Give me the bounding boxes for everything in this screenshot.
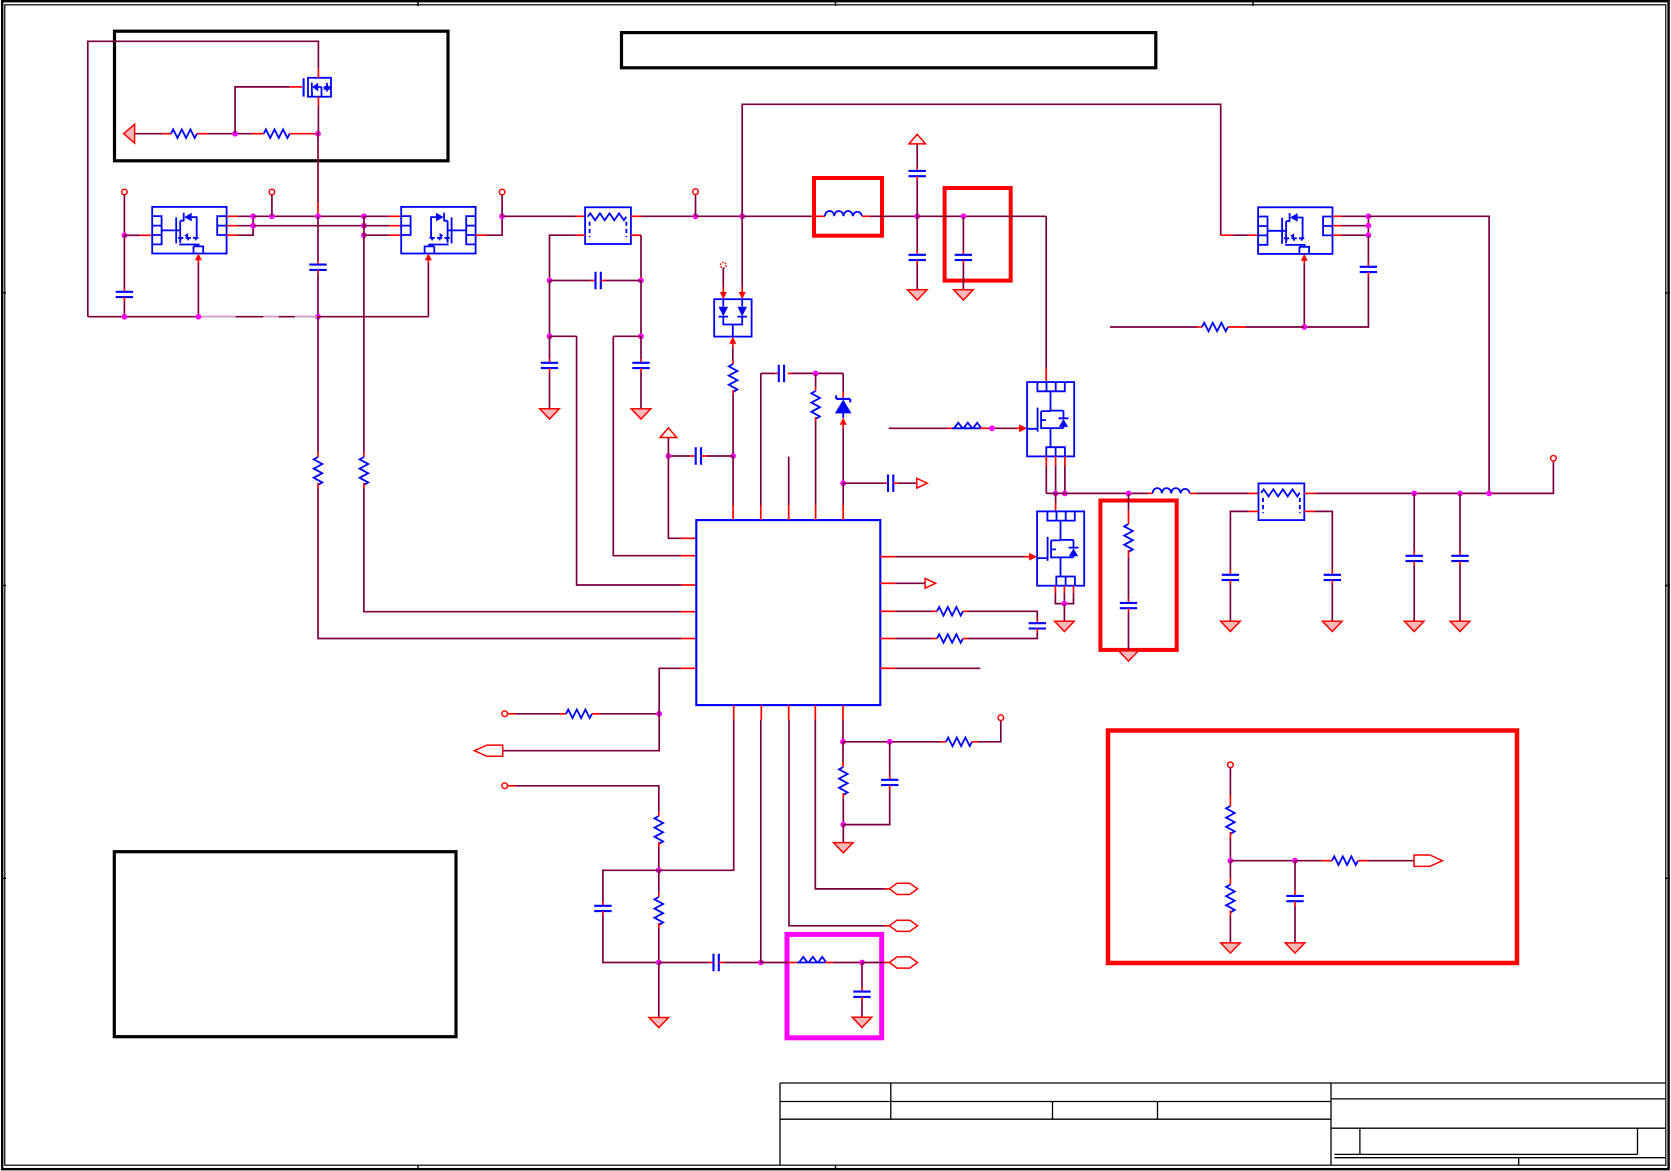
wire VM down to cap C22 bbox=[861, 963, 863, 992]
node CC2 bbox=[1366, 223, 1372, 229]
wire IC pin B1 down bbox=[659, 705, 734, 870]
wire QA source to bus bbox=[197, 263, 199, 317]
capacitor C23 bbox=[881, 780, 898, 785]
port P5 circle bbox=[1551, 456, 1557, 462]
wire P4b to D1 anode1 bbox=[720, 268, 727, 299]
wire column B to pack QB pins bbox=[364, 216, 401, 235]
resistor R3 bbox=[314, 457, 323, 485]
wire D1 to R5 bbox=[732, 347, 734, 364]
wire P8 to resistor chain bbox=[508, 786, 659, 816]
wire C8 to gnd bbox=[916, 260, 918, 290]
wire DIV to node DIV2 bbox=[1230, 860, 1295, 862]
wire PW2 to cap C7 bbox=[916, 144, 918, 171]
node DIV2 bbox=[1292, 858, 1298, 864]
pin QC source arrow bbox=[1301, 254, 1308, 264]
node FB2 bbox=[656, 867, 662, 873]
node QES bbox=[1062, 601, 1068, 607]
node P3J bbox=[499, 213, 505, 219]
node VC2 bbox=[961, 213, 967, 219]
black highlight box B1 (top-left) bbox=[115, 31, 449, 161]
wire C16 to gnd bbox=[1331, 580, 1333, 621]
wire R3 to IC pin LBST bbox=[318, 483, 696, 639]
wire QD gate net bbox=[889, 427, 952, 429]
node ILIM2 bbox=[887, 739, 893, 745]
wire ILIM down to R18 bbox=[842, 742, 844, 767]
capacitor C1 bbox=[116, 292, 133, 297]
wire L1 to rail bbox=[862, 215, 917, 217]
wire P1 to gate node bbox=[123, 195, 125, 236]
node C6R bbox=[730, 453, 736, 459]
wire QES to gnd bbox=[1063, 604, 1065, 622]
wire OUT2 to cap C18 bbox=[1459, 493, 1461, 555]
node T1L bbox=[547, 278, 553, 284]
wire T1 out to rail bbox=[631, 215, 696, 217]
capacitor C11 bbox=[779, 365, 784, 382]
node CMP2 bbox=[758, 960, 764, 966]
wire FB2 left jog to cap C20 bbox=[603, 870, 659, 906]
resistor R17 bbox=[946, 738, 972, 747]
capacitor C9 bbox=[955, 255, 972, 260]
capacitor C10 bbox=[1360, 267, 1377, 272]
wire R10 to cap C14 bbox=[1128, 550, 1130, 603]
wire x318 down with cap C2 bbox=[317, 216, 319, 264]
wire C20 to row bbox=[603, 911, 659, 962]
node IG bbox=[840, 822, 846, 828]
magenta highlight box MB1 bbox=[787, 934, 882, 1037]
ground G7 bbox=[1221, 621, 1241, 631]
capacitor C4 bbox=[541, 363, 558, 368]
node P1G bbox=[122, 232, 128, 238]
resistor R9 bbox=[937, 634, 963, 643]
capacitor C2 bbox=[309, 265, 326, 270]
wire R15 to node FB2 bbox=[658, 842, 660, 870]
wire VM to hex port H3 bbox=[862, 962, 889, 964]
MOSFET pack QB (mirrored) bbox=[401, 207, 475, 254]
inductor L2 bbox=[1153, 488, 1190, 493]
wire C17 to gnd bbox=[1413, 561, 1415, 621]
port P3 circle bbox=[499, 189, 505, 195]
ground G5 bbox=[1055, 621, 1075, 631]
MOSFET pack QE (vertical) bbox=[1037, 511, 1084, 585]
wire column B risers bbox=[363, 216, 365, 235]
capacitor C18 bbox=[1451, 556, 1468, 561]
wire P3 rail to T1 bbox=[502, 215, 585, 217]
wire IC pin B2 down to CMP2 bbox=[760, 705, 763, 962]
capacitor C14 bbox=[1120, 603, 1137, 608]
wire FB2 down to R16 bbox=[658, 870, 660, 897]
resistor R14 bbox=[566, 710, 592, 719]
wire C4 to gnd bbox=[549, 368, 551, 409]
wire R11 to node DIV bbox=[1229, 832, 1231, 861]
node P2J bbox=[269, 213, 275, 219]
node bus318 bbox=[315, 314, 321, 320]
pin D1 cathode arrow bbox=[729, 337, 736, 347]
node OD2 bbox=[1062, 491, 1068, 497]
resistor R1 bbox=[171, 129, 197, 138]
node N318 bbox=[315, 213, 321, 219]
wire C11 left riser to IC pin T2 bbox=[760, 373, 762, 520]
ground G14 bbox=[852, 1017, 872, 1027]
wire R5 to C6 node bbox=[732, 390, 734, 456]
node RB3J bbox=[1126, 491, 1132, 497]
wire ground bus bbox=[88, 316, 429, 318]
wire OUT1 to cap C17 bbox=[1413, 493, 1415, 555]
wire C15 to gnd bbox=[1229, 580, 1231, 621]
wire R1 to node G1 bbox=[197, 133, 252, 135]
wire row1 A to B column bbox=[253, 215, 364, 217]
resistor R5 bbox=[729, 364, 738, 392]
pin zener anode arrow bbox=[840, 418, 847, 429]
wire T1R down bbox=[640, 281, 642, 337]
wire CMP to cap C21 bbox=[659, 962, 714, 964]
IC right pin R1 to pack QE gate bbox=[880, 553, 1037, 561]
T1 bottom right leg bbox=[631, 235, 641, 280]
wire RB3J to R10 bbox=[1128, 493, 1130, 524]
zener D2 bbox=[835, 395, 852, 418]
resistor R13 bbox=[1226, 885, 1235, 913]
wire R8 to cap C13 bbox=[963, 611, 1037, 623]
wire Q1 source down bbox=[317, 105, 319, 216]
wire C7 to rail node bbox=[916, 176, 918, 216]
port P1 circle bbox=[122, 189, 128, 195]
wire L2 to T2 bbox=[1190, 492, 1259, 494]
wire P10 to R11 bbox=[1229, 768, 1231, 806]
node CC3 bbox=[1366, 232, 1372, 238]
wire out rail bbox=[1046, 492, 1152, 494]
resistor R10 bbox=[1124, 524, 1133, 552]
wire ILIM row to port P9 bbox=[843, 741, 946, 743]
wire top long net bbox=[742, 104, 1258, 235]
wire C18 to gnd bbox=[1459, 561, 1461, 621]
wire ZB to IC bbox=[842, 483, 844, 520]
ferrite bead FB1 bbox=[952, 423, 981, 429]
wire DIV2 down to cap C19 bbox=[1294, 861, 1296, 896]
wire R6 row bbox=[1110, 326, 1202, 328]
wire PW1 to IC pin L1 bbox=[668, 438, 696, 539]
resistor R8 bbox=[937, 607, 963, 616]
pin QB source arrow bbox=[425, 254, 432, 264]
ferrite bead FB3 bbox=[797, 957, 826, 963]
wire C21 to node CMP2 bbox=[719, 962, 761, 964]
resistor R2 bbox=[252, 129, 318, 138]
wire C3 to T1R bbox=[601, 280, 641, 282]
resistor R16 bbox=[655, 897, 664, 925]
TITLEBLOCK bbox=[780, 1083, 1665, 1166]
wire C6R to IC pin T1 bbox=[732, 456, 734, 520]
wire R4 to IC bbox=[364, 483, 696, 612]
capacitor C22 bbox=[853, 992, 870, 997]
power arrow PW2 bbox=[909, 134, 926, 144]
wire P1G to pack QA gate bbox=[124, 234, 152, 236]
wire R7 to IC pin T4 bbox=[815, 417, 817, 520]
port P2 circle bbox=[269, 189, 275, 195]
T2 bottom right leg bbox=[1304, 511, 1332, 574]
node A2 bbox=[250, 223, 256, 229]
node G1 bbox=[232, 131, 238, 137]
wire CC1 to right drop bbox=[1368, 216, 1489, 493]
node ILIM bbox=[840, 739, 846, 745]
wire QC right pins to column C bbox=[1333, 216, 1369, 235]
resistor R18 bbox=[839, 767, 848, 795]
port H2 hex bbox=[889, 920, 917, 931]
node T1R bbox=[638, 278, 644, 284]
wire zener cathode bbox=[842, 373, 844, 398]
ground G1 bbox=[540, 409, 560, 419]
port P8 circle bbox=[502, 783, 508, 789]
wire C5 to gnd bbox=[640, 368, 642, 409]
wire R14 to node SCL bbox=[592, 713, 659, 715]
ground G15 bbox=[834, 843, 854, 853]
capacitor C3 bbox=[596, 272, 601, 289]
node OUT2 bbox=[1457, 491, 1463, 497]
ground G2 bbox=[631, 409, 651, 419]
wire VC1 to cap C8 bbox=[916, 216, 918, 255]
node OD1 bbox=[1053, 491, 1059, 497]
ground G10 bbox=[1450, 621, 1470, 631]
wire FB1 to QD gate bbox=[980, 424, 1027, 432]
wire C2 to bus bbox=[317, 270, 319, 317]
capacitor C17 bbox=[1406, 556, 1423, 561]
wire DIV down to R13 bbox=[1229, 861, 1231, 885]
inductor L1 bbox=[825, 211, 862, 216]
node C6L bbox=[666, 453, 672, 459]
wire IC pin B3 to hex H2 bbox=[789, 705, 890, 926]
wire rail P4 to D1 riser bbox=[696, 215, 743, 217]
wire zener top net bbox=[761, 372, 843, 374]
node CMP bbox=[656, 960, 662, 966]
wire P3 stub bbox=[501, 195, 503, 217]
wire column B down to IC pin LGATE bbox=[363, 235, 365, 457]
node FBJ bbox=[989, 425, 995, 431]
node T1L2 bbox=[547, 333, 553, 339]
port P6 circle bbox=[502, 711, 508, 717]
T2 bottom left leg bbox=[1230, 511, 1258, 574]
node OUT1 bbox=[1411, 491, 1417, 497]
wire P2 stub bbox=[271, 195, 273, 217]
wire rail to L1 bbox=[742, 215, 825, 217]
node DIV bbox=[1228, 858, 1234, 864]
wire DIV2 to R12 bbox=[1295, 860, 1332, 862]
IC right pin R4 net with R9 bbox=[880, 638, 937, 640]
node OUT3 bbox=[1486, 491, 1492, 497]
wire QB out pin to node P3 bbox=[476, 216, 503, 235]
wire P4 stub bbox=[695, 195, 697, 217]
dual diode D1 bbox=[714, 299, 751, 336]
red highlight box RB3 bbox=[1100, 501, 1176, 650]
ground G3 bbox=[907, 290, 927, 300]
capacitor C21 bbox=[714, 954, 719, 971]
power arrow PW1 bbox=[660, 428, 677, 438]
port PTL (left pentagon) bbox=[474, 745, 502, 756]
node bus198 bbox=[196, 314, 202, 320]
node D1J bbox=[739, 213, 745, 219]
capacitor C7 bbox=[909, 171, 926, 176]
wire P1G down to cap C1 bbox=[123, 235, 125, 291]
wire CMP2 into box bbox=[761, 962, 797, 964]
port P10 circle bbox=[1228, 762, 1234, 768]
node B2r bbox=[361, 223, 367, 229]
T1 bottom left leg bbox=[550, 235, 586, 280]
wire IG to gnd bbox=[842, 825, 844, 843]
red highlight box RB4 bbox=[1108, 731, 1517, 964]
wire R18 to node IG bbox=[842, 793, 844, 825]
title banner box bbox=[622, 33, 1156, 68]
capacitor C6 bbox=[668, 447, 733, 464]
ground G13 bbox=[649, 1018, 669, 1028]
pin QA source arrow bbox=[195, 254, 202, 264]
wire FB3 to node VM bbox=[825, 962, 862, 964]
resistor R6 bbox=[1202, 323, 1228, 332]
wire rail VC1 to corner 1046 bbox=[917, 215, 1046, 217]
wire IC pin L6 to pentagon port bbox=[503, 668, 696, 750]
wire QD bottom pins to out rail bbox=[1046, 456, 1065, 493]
node CC1 bbox=[1366, 213, 1372, 219]
MOSFET pack QA bbox=[152, 207, 226, 254]
port H3 hex bbox=[889, 957, 917, 968]
wire QC source down bbox=[1303, 263, 1305, 327]
wire P6 to R14 bbox=[508, 713, 567, 715]
transformer T2 bbox=[1259, 483, 1305, 520]
node T1R2 bbox=[638, 333, 644, 339]
capacitor C16 bbox=[1324, 575, 1341, 580]
wire C14 to gnd bbox=[1128, 608, 1130, 651]
MOSFET pack QC bbox=[1258, 207, 1332, 254]
IC U1 bbox=[696, 520, 880, 705]
wire T1L2 jog to IC riser x576.6 bbox=[550, 336, 697, 585]
IC right pin R2 to arrow port bbox=[880, 582, 925, 584]
wire T1L to cap C3 bbox=[550, 280, 596, 282]
ground G4 bbox=[954, 290, 974, 300]
node QCS bbox=[1301, 324, 1307, 330]
ground G8 bbox=[1323, 621, 1343, 631]
wire gate riser Q1 bbox=[235, 87, 302, 134]
node P4J bbox=[693, 213, 699, 219]
wire R6 to QCS bbox=[1228, 326, 1304, 328]
wire C9 to gnd bbox=[962, 260, 964, 290]
wire R17 to P9 bbox=[972, 720, 1001, 741]
wire IC pin B5 down bbox=[842, 705, 844, 742]
port AR2 (open right arrow) bbox=[925, 578, 936, 588]
resistor R15 bbox=[655, 816, 664, 844]
capacitor C20 bbox=[594, 906, 611, 911]
wire ZB to cap C12 bbox=[843, 482, 888, 484]
port IN1 (left arrow port in box B1) bbox=[124, 124, 135, 143]
wire C12 to port arrow bbox=[893, 482, 916, 484]
wire QE top stub bbox=[1055, 493, 1057, 511]
wire T2 to out nodes bbox=[1304, 461, 1553, 493]
ground G12 bbox=[1285, 943, 1305, 953]
wire C10 to QC source node bbox=[1304, 272, 1368, 327]
port H1 hex bbox=[889, 883, 917, 894]
node bus124 bbox=[122, 314, 128, 320]
resistor R11 bbox=[1226, 806, 1235, 834]
port AR1 (open right arrow) bbox=[917, 478, 928, 488]
wire T1L down bbox=[549, 281, 551, 337]
wire C23 to IG bbox=[843, 785, 889, 825]
node B1r bbox=[361, 213, 367, 219]
wire C22 to gnd bbox=[861, 997, 863, 1017]
wire T1R2 down to cap C5 bbox=[640, 336, 642, 363]
wire CC3 down to cap C10 bbox=[1367, 235, 1369, 267]
port PTR (right pentagon) bbox=[1414, 855, 1442, 866]
wire IN1 to R1 bbox=[135, 133, 171, 135]
IC right pin R3 net with R8 bbox=[880, 610, 937, 612]
capacitor C5 bbox=[632, 363, 649, 368]
wire R16 to node CMP bbox=[658, 923, 660, 963]
wire CMP to gnd bbox=[658, 963, 660, 1018]
resistor R12 bbox=[1332, 856, 1358, 865]
wire R9 to C13 bottom bbox=[963, 629, 1037, 639]
wire QE bottom pins join bbox=[1055, 586, 1073, 604]
capacitor C15 bbox=[1222, 575, 1239, 580]
wire T1L2 down to cap C4 bbox=[549, 336, 551, 363]
wire rail down to pack QD bbox=[1045, 216, 1047, 382]
wire row2 A to B column bbox=[253, 225, 364, 227]
wire IC pin T3 stub bbox=[788, 457, 790, 520]
node VC1 bbox=[914, 213, 920, 219]
capacitor C12 bbox=[888, 475, 893, 492]
wire IC pin B4 to hex H1 bbox=[815, 705, 889, 889]
red highlight box RB2 bbox=[945, 188, 1011, 281]
wire C1 to bus bbox=[123, 297, 125, 317]
capacitor C8 bbox=[909, 255, 926, 260]
port P4b circle (dashed) bbox=[721, 262, 727, 268]
wire D1J down to D1 anode2 bbox=[739, 216, 746, 299]
wire Q1 drain to rail VIN bbox=[88, 41, 319, 316]
wire QA pin3 jog bbox=[227, 216, 254, 235]
transformer T1 bbox=[585, 207, 631, 244]
node VM bbox=[859, 960, 865, 966]
wire R13 to gnd bbox=[1229, 911, 1231, 943]
black highlight box B2 (bottom-left, empty) bbox=[114, 852, 456, 1037]
wire QB source to bus bbox=[427, 263, 429, 317]
port P9 circle bbox=[998, 715, 1004, 721]
resistor R7 bbox=[811, 391, 820, 419]
resistor R4 bbox=[360, 457, 369, 485]
IC right pin R5 dangling bbox=[880, 667, 980, 669]
MOSFET pack QD (vertical) bbox=[1027, 382, 1074, 456]
wire ZR to R7 bbox=[815, 373, 817, 391]
wire ILIM2 down to cap C23 bbox=[889, 742, 891, 780]
node N1 bbox=[315, 131, 321, 137]
ground G9 bbox=[1404, 621, 1424, 631]
node B3r bbox=[361, 232, 367, 238]
node A1 bbox=[250, 213, 256, 219]
transistor Q1 bbox=[304, 69, 331, 106]
port P4 circle bbox=[693, 189, 699, 195]
node ZR bbox=[813, 371, 819, 377]
capacitor C19 bbox=[1286, 896, 1303, 901]
wire QA drain pins to node column A bbox=[227, 216, 252, 225]
ground G11 bbox=[1221, 943, 1241, 953]
red highlight box RB1 bbox=[814, 178, 882, 236]
wire T1R2 jog to IC riser x613.3 bbox=[613, 336, 696, 555]
ground G6 bbox=[1119, 651, 1139, 661]
capacitor C13 bbox=[1029, 623, 1046, 628]
wire C19 to gnd bbox=[1294, 901, 1296, 943]
wire x318 bus to resistor R3 bbox=[317, 317, 319, 457]
wire VC2 to cap C9 bbox=[962, 216, 964, 255]
node ZB bbox=[840, 480, 846, 486]
wire R12 to port pentagon bbox=[1358, 860, 1414, 862]
node SCL bbox=[656, 711, 662, 717]
wire zener to IC pin T5 bbox=[842, 428, 844, 483]
